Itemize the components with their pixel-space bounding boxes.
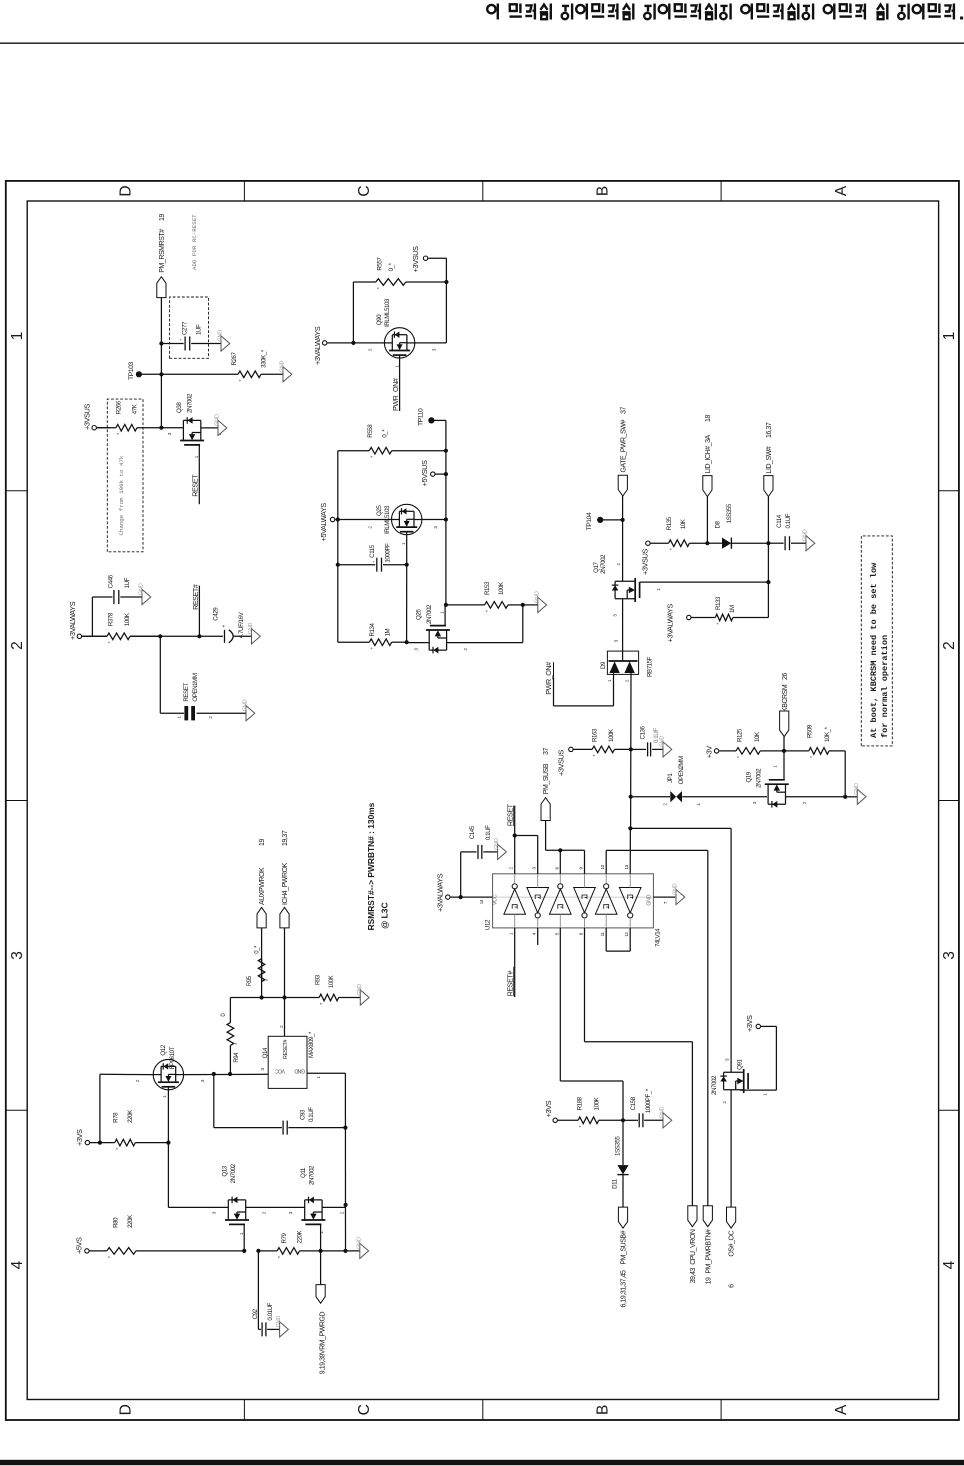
svg-text:2: 2 xyxy=(340,1211,345,1214)
svg-text:GND: GND xyxy=(243,699,249,711)
svg-text:3: 3 xyxy=(413,648,418,651)
svg-text:2: 2 xyxy=(262,1211,267,1214)
wire R95 node vertical xyxy=(230,997,319,999)
transistor Q12 xyxy=(153,1059,183,1089)
svg-text:R134: R134 xyxy=(369,622,376,636)
inverter U12A xyxy=(504,889,526,914)
port ICH4_PWROK xyxy=(280,907,289,928)
svg-text:100K: 100K xyxy=(593,1096,600,1110)
wire to Q17 xyxy=(622,520,624,581)
svg-text:2: 2 xyxy=(616,563,621,566)
svg-text:+5VS: +5VS xyxy=(75,1237,84,1254)
port CPU_VRON xyxy=(688,1206,697,1227)
port VRM_PWRGD xyxy=(320,1251,322,1285)
svg-text:RB715F: RB715F xyxy=(647,656,654,677)
wire pin8 route xyxy=(584,928,586,1042)
svg-text:Q14: Q14 xyxy=(262,1047,269,1058)
svg-text:+3VSUS: +3VSUS xyxy=(557,750,566,776)
port LID_SW# xyxy=(767,497,769,618)
port OS#_OC xyxy=(727,1207,736,1228)
wire Q90 drain top xyxy=(327,342,384,344)
svg-text:19: 19 xyxy=(259,839,266,846)
net label RESET (Q38 gate) xyxy=(198,445,200,504)
zone letters xyxy=(118,185,850,1415)
svg-text:GND: GND xyxy=(280,361,286,373)
svg-text:1: 1 xyxy=(762,1093,767,1096)
svg-text:+3VSUS: +3VSUS xyxy=(83,404,92,430)
svg-text:Q91: Q91 xyxy=(736,1058,743,1069)
power +3VALWAYS (R133) xyxy=(687,615,691,619)
svg-text:Q25: Q25 xyxy=(376,505,383,516)
junction xyxy=(158,634,162,638)
svg-text:*: * xyxy=(108,641,114,644)
svg-text:39,43: 39,43 xyxy=(690,1267,697,1283)
svg-text:2N7002: 2N7002 xyxy=(230,1163,237,1183)
wire Q19 gate xyxy=(783,751,785,780)
svg-text:RESET: RESET xyxy=(183,683,190,702)
svg-text:+: + xyxy=(371,560,376,563)
svg-text:100K: 100K xyxy=(608,728,615,742)
svg-text:*: * xyxy=(593,754,599,757)
svg-text:C115: C115 xyxy=(369,544,376,558)
net label PWR_ON# (Q90 gate) xyxy=(399,358,401,411)
junction xyxy=(405,640,409,644)
svg-text:2: 2 xyxy=(367,526,372,529)
svg-text:19: 19 xyxy=(705,1277,712,1284)
svg-text:7: 7 xyxy=(663,901,668,904)
junction xyxy=(444,280,448,284)
svg-text:+5VALWAYS: +5VALWAYS xyxy=(319,503,328,542)
svg-text:3: 3 xyxy=(212,1211,217,1214)
svg-text:GND: GND xyxy=(647,894,653,905)
svg-text:1: 1 xyxy=(509,932,514,935)
svg-text:6,19,31,37,45: 6,19,31,37,45 xyxy=(621,1270,628,1308)
svg-text:0_*: 0_* xyxy=(254,945,260,954)
svg-text:100K: 100K xyxy=(329,975,335,988)
svg-text:R125: R125 xyxy=(736,728,743,742)
power +5VS (R80) xyxy=(85,1249,89,1253)
svg-text:2: 2 xyxy=(722,1101,727,1104)
inverter U12B xyxy=(527,888,549,913)
net label RESET# (R378 node) xyxy=(198,586,200,637)
svg-text:LID_ICH#_3A: LID_ICH#_3A xyxy=(705,434,712,473)
junction xyxy=(212,1072,216,1076)
resistor R133 xyxy=(691,617,715,619)
ground switch xyxy=(246,706,255,721)
junction xyxy=(351,341,355,345)
junction xyxy=(444,517,448,521)
svg-text:PM_RSMRST#: PM_RSMRST# xyxy=(159,229,166,273)
svg-text:1: 1 xyxy=(439,611,444,614)
svg-text:LID_SW#: LID_SW# xyxy=(766,446,773,473)
svg-text:0_*: 0_* xyxy=(382,429,389,438)
svg-text:B: B xyxy=(594,186,611,196)
svg-text:TP104: TP104 xyxy=(586,512,593,530)
svg-text:1UF: 1UF xyxy=(124,577,131,588)
transistor Q17 xyxy=(612,578,640,602)
svg-text:R133: R133 xyxy=(715,596,722,610)
svg-text:330K_*: 330K_* xyxy=(260,349,267,368)
svg-text:Q19: Q19 xyxy=(746,771,753,782)
svg-text:10K: 10K xyxy=(754,731,761,742)
dashed box C277 xyxy=(170,297,209,358)
svg-text:0.1UF: 0.1UF xyxy=(785,513,792,528)
svg-text:74LV14: 74LV14 xyxy=(655,928,662,947)
svg-text:0.01UF: 0.01UF xyxy=(267,1302,274,1320)
wire pin5 route xyxy=(559,928,561,1081)
junction xyxy=(166,1141,170,1145)
svg-text:1: 1 xyxy=(696,803,701,806)
svg-text:ADD FOR RC-RESET: ADD FOR RC-RESET xyxy=(191,214,198,270)
svg-text:18: 18 xyxy=(705,415,712,422)
svg-text:GND: GND xyxy=(276,1316,282,1328)
junction xyxy=(843,795,847,799)
svg-text:A: A xyxy=(833,1404,850,1415)
svg-text:3: 3 xyxy=(613,639,618,642)
bottom bar xyxy=(0,1460,964,1465)
resistor R509 xyxy=(784,750,809,752)
svg-text:FP0610T: FP0610T xyxy=(169,1046,176,1069)
junction xyxy=(159,372,163,376)
inverter U12F xyxy=(619,888,641,913)
note box KBCRSM xyxy=(861,536,892,746)
svg-text:19: 19 xyxy=(159,214,166,221)
svg-text:*: * xyxy=(117,432,123,435)
wire pin3 bridge xyxy=(515,835,538,837)
junction xyxy=(336,517,340,521)
ground R153 xyxy=(523,604,538,606)
junction xyxy=(242,1249,246,1253)
svg-text:2: 2 xyxy=(509,867,514,870)
svg-text:PM_SUSB: PM_SUSB xyxy=(543,763,550,794)
svg-text:GND: GND xyxy=(218,330,224,342)
svg-text:3: 3 xyxy=(612,614,617,617)
wire OS_OC to port xyxy=(730,1090,732,1207)
net label PWR_ON# (D9) xyxy=(613,674,615,706)
svg-text:1M: 1M xyxy=(384,629,391,637)
svg-text:Q90: Q90 xyxy=(376,314,383,325)
svg-text:0_*: 0_* xyxy=(388,262,395,271)
junction xyxy=(629,795,633,799)
svg-text:3: 3 xyxy=(941,951,958,960)
svg-text:3: 3 xyxy=(432,348,437,351)
ground C158 xyxy=(663,1113,672,1128)
svg-text:4.7UF/16V: 4.7UF/16V xyxy=(238,611,245,638)
svg-text:100K: 100K xyxy=(124,612,131,626)
svg-text:+3VALWAYS: +3VALWAYS xyxy=(313,326,322,365)
power +3VALWAYS (U12) xyxy=(446,895,450,899)
junction xyxy=(621,518,625,522)
ground C92 xyxy=(280,1322,289,1337)
svg-text:8: 8 xyxy=(579,932,584,935)
svg-text:1: 1 xyxy=(177,716,182,719)
capacitor C114 xyxy=(768,542,783,544)
svg-text:D: D xyxy=(118,1404,135,1415)
svg-text:R95: R95 xyxy=(247,975,253,986)
resistor R125 xyxy=(719,750,736,752)
wire Q12 drain bottom xyxy=(184,1073,269,1075)
junction xyxy=(260,995,264,999)
junction xyxy=(405,563,409,567)
svg-text:PWR_ON#: PWR_ON# xyxy=(391,378,400,411)
power +3VSUS (R163) xyxy=(569,747,573,751)
pin numbers U12 xyxy=(479,864,668,936)
svg-text:1: 1 xyxy=(9,332,26,341)
resistor R78 xyxy=(90,1142,115,1144)
svg-text:R378: R378 xyxy=(107,612,114,626)
junction xyxy=(344,1203,348,1207)
resistor R558 xyxy=(338,450,370,452)
wire Q90 drain bottom xyxy=(415,342,447,344)
svg-text:4: 4 xyxy=(941,1260,958,1269)
svg-text:3: 3 xyxy=(752,801,757,804)
svg-text:10K_*: 10K_* xyxy=(824,726,831,742)
svg-text:9: 9 xyxy=(579,867,584,870)
svg-text:1: 1 xyxy=(394,365,399,368)
port KBCRSM xyxy=(783,737,785,751)
svg-text:VCC: VCC xyxy=(275,1068,285,1074)
zone numbers xyxy=(9,332,958,1270)
transistor Q13 xyxy=(225,1197,249,1225)
svg-text:2N7002: 2N7002 xyxy=(711,1075,718,1095)
svg-text:OPEN2MM: OPEN2MM xyxy=(678,756,685,784)
svg-text:2: 2 xyxy=(9,641,26,650)
testpoint TP103 xyxy=(136,371,142,377)
resistor R153 xyxy=(446,604,485,606)
svg-text:D9: D9 xyxy=(600,661,607,669)
junction xyxy=(444,603,448,607)
note box change from 100k to 47k xyxy=(107,399,143,552)
svg-text:JP1: JP1 xyxy=(667,773,674,783)
junction xyxy=(159,426,163,430)
svg-text:2N7002: 2N7002 xyxy=(600,554,607,574)
svg-text:AUXPWROK: AUXPWROK xyxy=(259,867,266,905)
transistor Q19 xyxy=(765,780,789,808)
svg-text:1000PF_*: 1000PF_* xyxy=(645,1088,652,1113)
svg-text:2: 2 xyxy=(279,1025,284,1028)
switch RESET OPEN1MM wire xyxy=(159,636,161,713)
svg-text:GATE_PWR_SW#: GATE_PWR_SW# xyxy=(620,420,627,473)
svg-text:GND: GND xyxy=(673,883,679,895)
svg-text:+3VALWAYS: +3VALWAYS xyxy=(435,873,444,912)
svg-text:*: * xyxy=(278,1255,284,1258)
junction xyxy=(521,603,525,607)
capacitor C277 xyxy=(161,343,183,345)
capacitor C429 polarized xyxy=(224,630,226,643)
svg-text:2N7002: 2N7002 xyxy=(309,1165,316,1185)
svg-text:RESET: RESET xyxy=(191,474,200,497)
junction xyxy=(197,634,201,638)
junction xyxy=(282,995,286,999)
svg-text:C136: C136 xyxy=(640,725,647,739)
rail +5VSUS ly445 xyxy=(445,420,447,604)
svg-text:1: 1 xyxy=(194,455,199,458)
svg-text:*: * xyxy=(370,455,376,458)
internal rail xyxy=(493,896,654,898)
testpoint TP104 xyxy=(597,517,603,523)
svg-text:2: 2 xyxy=(135,1079,140,1082)
junction xyxy=(621,1118,625,1122)
svg-text:C429: C429 xyxy=(213,607,220,621)
svg-text:IRLML5103: IRLML5103 xyxy=(384,505,391,534)
svg-text:GND: GND xyxy=(215,414,221,426)
ground +5VS rail xyxy=(360,1243,369,1258)
svg-text:220K: 220K xyxy=(127,1109,134,1123)
ground R267 xyxy=(283,367,292,382)
svg-text:0.1UF: 0.1UF xyxy=(485,825,492,840)
svg-text:C446: C446 xyxy=(107,574,114,588)
svg-text:*: * xyxy=(108,1255,114,1258)
svg-text:for normal operation: for normal operation xyxy=(880,635,890,738)
wire rail mid xyxy=(130,635,223,637)
svg-text:PM_PWRBTN#: PM_PWRBTN# xyxy=(705,1229,712,1274)
svg-text:D: D xyxy=(118,185,135,196)
header Korean notice text (vector substitute) xyxy=(487,4,963,20)
power +3VS (R78) xyxy=(85,1140,89,1144)
diode D9 RB715F xyxy=(607,651,638,674)
svg-text:2N7002: 2N7002 xyxy=(186,393,193,413)
ground C145 xyxy=(498,844,507,859)
wire D9 pin2 net xyxy=(630,674,632,828)
header rule xyxy=(0,42,964,44)
wire gnd net ly345 xyxy=(344,1073,346,1251)
resistor R378 xyxy=(82,635,107,637)
svg-text:R163: R163 xyxy=(592,728,599,742)
svg-text:*: * xyxy=(810,755,816,758)
svg-text:GND: GND xyxy=(803,529,809,541)
svg-text:1: 1 xyxy=(772,765,777,768)
svg-text:*: * xyxy=(239,379,245,382)
svg-text:GND: GND xyxy=(494,838,500,850)
svg-text:100K: 100K xyxy=(498,581,505,595)
port GATE_PWR_SW# xyxy=(622,496,624,520)
power +3VS (R188) xyxy=(553,1118,557,1122)
svg-text:GND: GND xyxy=(356,1237,362,1249)
svg-text:+3VS: +3VS xyxy=(75,1129,84,1146)
svg-text:3: 3 xyxy=(200,1079,205,1082)
svg-text:B: B xyxy=(594,1405,611,1415)
svg-text:*: * xyxy=(579,1125,585,1128)
port PM_RSMRST# xyxy=(157,277,166,298)
capacitor C158 xyxy=(623,1119,638,1121)
svg-text:U12: U12 xyxy=(484,919,491,930)
wire Q11 gate xyxy=(320,1224,322,1251)
svg-text:10: 10 xyxy=(600,864,605,869)
wire pin10 route PM_PWRBTN# xyxy=(605,850,607,873)
svg-text:1SS355: 1SS355 xyxy=(614,1136,621,1156)
ground C114 xyxy=(806,536,815,551)
svg-text:GND: GND xyxy=(248,623,254,635)
svg-text:2: 2 xyxy=(941,641,958,650)
svg-text:+: + xyxy=(222,625,228,628)
svg-text:*: * xyxy=(116,1147,122,1150)
capacitor C446 branch wire xyxy=(91,597,93,636)
resistor R93 xyxy=(318,997,320,999)
svg-text:IRLML5103: IRLML5103 xyxy=(384,298,391,327)
resistor R80 xyxy=(90,1250,107,1252)
svg-text:C277: C277 xyxy=(181,321,188,335)
ground C136 xyxy=(663,742,672,757)
svg-text:Q26: Q26 xyxy=(416,609,423,620)
power +3VALWAYS (Q90) xyxy=(323,341,327,345)
svg-text:R266: R266 xyxy=(116,400,123,414)
svg-text:2: 2 xyxy=(663,803,668,806)
svg-text:2: 2 xyxy=(624,679,629,682)
transistor Q11 xyxy=(301,1197,325,1225)
junction xyxy=(459,895,463,899)
svg-text:CPU_VRON: CPU_VRON xyxy=(690,1229,697,1265)
wire ICH4 to U14 xyxy=(284,928,286,1036)
svg-text:GND: GND xyxy=(534,591,540,603)
svg-text:@ L3C: @ L3C xyxy=(379,902,389,928)
svg-text:1: 1 xyxy=(162,1095,167,1098)
junction xyxy=(256,1249,260,1253)
junction xyxy=(628,826,632,830)
svg-text:+3VALWAYS: +3VALWAYS xyxy=(68,601,77,640)
svg-text:GND: GND xyxy=(139,583,145,595)
svg-text:1: 1 xyxy=(607,679,612,682)
svg-text:R188: R188 xyxy=(577,1096,584,1110)
svg-text:R135: R135 xyxy=(666,516,673,530)
diode D8 xyxy=(722,538,731,549)
svg-text:1: 1 xyxy=(401,542,406,545)
svg-text:R94: R94 xyxy=(234,1052,240,1063)
svg-text:OPEN1MM: OPEN1MM xyxy=(192,673,199,701)
wire pin6-9 bridge xyxy=(559,850,561,874)
svg-text:R509: R509 xyxy=(806,724,813,738)
net label RESET# (U12 pin1) xyxy=(514,928,516,997)
svg-text:0.1UF: 0.1UF xyxy=(308,1107,315,1122)
ground R93 xyxy=(360,990,369,1005)
capacitor C92 xyxy=(257,1251,259,1330)
svg-text:GND: GND xyxy=(294,1068,305,1074)
inverter U12D xyxy=(574,888,596,913)
junction xyxy=(766,580,770,584)
power +3VSUS (Q90) xyxy=(428,257,446,259)
svg-text:3: 3 xyxy=(288,1211,293,1214)
jumper JP1 OPEN2MM xyxy=(631,796,670,798)
wire Q91 gate loop xyxy=(740,1089,777,1091)
svg-text:1M: 1M xyxy=(729,605,736,613)
svg-text:1: 1 xyxy=(656,588,661,591)
power +3VSUS (R266) xyxy=(92,425,96,429)
svg-text:RESET#: RESET# xyxy=(191,584,200,610)
svg-text:+3VSUS: +3VSUS xyxy=(641,549,650,575)
svg-text:GND: GND xyxy=(660,736,666,748)
svg-text:R93: R93 xyxy=(316,974,322,985)
svg-text:+3V: +3V xyxy=(705,746,714,759)
junction xyxy=(444,449,448,453)
svg-text:*: * xyxy=(377,286,383,289)
testpoint TP110 xyxy=(428,417,434,423)
svg-text:C: C xyxy=(356,1404,373,1415)
svg-text:3: 3 xyxy=(532,867,537,870)
svg-text:C: C xyxy=(356,185,373,196)
wire pin13 net xyxy=(629,828,631,873)
junction xyxy=(343,1249,347,1253)
svg-text:3: 3 xyxy=(433,526,438,529)
wire gate node xyxy=(406,565,408,643)
capacitor C446 xyxy=(113,590,115,604)
wire gate column xyxy=(168,1206,228,1208)
svg-text:4: 4 xyxy=(532,932,537,935)
IC U14 MAX809 box xyxy=(268,1036,307,1088)
capacitor C136 xyxy=(631,748,646,750)
wire pin4 stub xyxy=(537,928,539,945)
resistor R95 xyxy=(261,928,263,982)
wire +5valways rail xyxy=(335,519,391,521)
svg-text:A: A xyxy=(833,185,850,196)
